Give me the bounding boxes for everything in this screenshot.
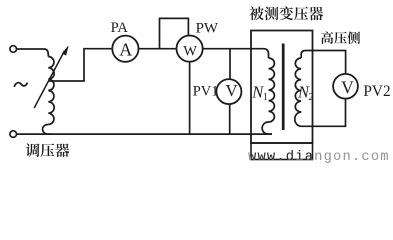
label 被测变压器 (transformer under test) xyxy=(249,6,323,20)
autotransformer T (调压器) winding xyxy=(48,57,54,125)
wire: wattmeter to transformer primary, top rail xyxy=(203,49,269,58)
svg-text:2: 2 xyxy=(308,91,314,103)
wire: primary winding bottom to bottom rail xyxy=(262,122,272,134)
svg-text:V: V xyxy=(341,78,354,98)
wire: top rail tap down to voltmeter PV1 xyxy=(229,49,231,80)
ammeter PA (A) xyxy=(112,36,138,62)
wattmeter current-coil loop xyxy=(160,18,189,48)
svg-text:PV1: PV1 xyxy=(193,84,219,100)
wire: regulator coil bottom to bottom rail xyxy=(43,124,54,134)
wire: voltmeter PV1 bottom to bottom rail xyxy=(229,104,231,134)
bottom rail wire xyxy=(17,133,272,135)
watermark frame below box xyxy=(251,143,313,160)
voltmeter PV2 (V) xyxy=(333,74,358,99)
wire: top terminal to regulator coil top xyxy=(17,49,49,57)
label 高压侧 (high-voltage side) xyxy=(321,31,360,44)
regulator wiper arrow xyxy=(34,51,64,108)
AC source symbol ~ xyxy=(14,83,27,87)
wire: wiper tap to top rail, to ammeter xyxy=(49,49,113,81)
svg-text:V: V xyxy=(225,81,238,100)
svg-text:PA: PA xyxy=(111,20,129,36)
voltmeter PV1 (V) xyxy=(216,79,241,104)
svg-text:W: W xyxy=(183,44,197,60)
watermark www.diangon.com (dark part inside frame) xyxy=(248,149,390,165)
svg-text:A: A xyxy=(119,39,132,59)
primary winding N1 xyxy=(269,58,275,122)
terminal J1 (top input) xyxy=(10,46,17,53)
svg-text:PW: PW xyxy=(196,20,219,36)
wire: voltmeter PV2 bottom to secondary bottom xyxy=(295,99,346,127)
wire: secondary top to voltmeter PV2 xyxy=(301,51,345,74)
wire: ammeter to wattmeter xyxy=(139,48,177,50)
terminal J2 (bottom input) xyxy=(10,131,17,138)
svg-text:1: 1 xyxy=(263,92,268,103)
transformer enclosure box xyxy=(251,31,313,144)
secondary winding N2 xyxy=(295,58,301,112)
wire: wattmeter bottom to bottom rail xyxy=(189,62,191,134)
transformer core xyxy=(282,44,285,131)
wattmeter PW (W) xyxy=(177,36,203,62)
svg-text:PV2: PV2 xyxy=(363,83,390,100)
label 调压器 (voltage regulator) xyxy=(26,143,70,157)
